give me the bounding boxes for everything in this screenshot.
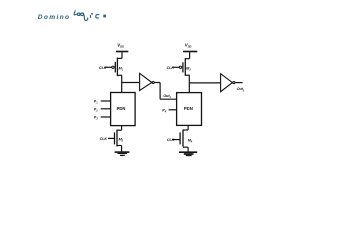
svg-text:4: 4: [164, 111, 167, 114]
svg-text:3: 3: [96, 118, 98, 121]
svg-text:2: 2: [242, 89, 245, 92]
svg-text:CLK: CLK: [100, 137, 108, 141]
svg-text:1: 1: [96, 102, 98, 105]
svg-text:2: 2: [121, 140, 124, 143]
svg-text:1: 1: [170, 96, 172, 99]
svg-text:3: 3: [189, 68, 191, 71]
svg-text:CLK: CLK: [99, 66, 107, 70]
svg-text:CLK: CLK: [167, 66, 175, 70]
svg-text:4: 4: [190, 141, 193, 144]
svg-text:PDN: PDN: [117, 106, 126, 111]
svg-text:2: 2: [95, 110, 98, 113]
svg-text:DD: DD: [120, 44, 124, 48]
svg-text:CLK: CLK: [167, 138, 175, 142]
svg-text:1: 1: [122, 68, 124, 71]
svg-text:Domino: Domino: [38, 14, 71, 21]
svg-text:PDN: PDN: [184, 106, 193, 111]
svg-text:DD: DD: [188, 44, 192, 48]
